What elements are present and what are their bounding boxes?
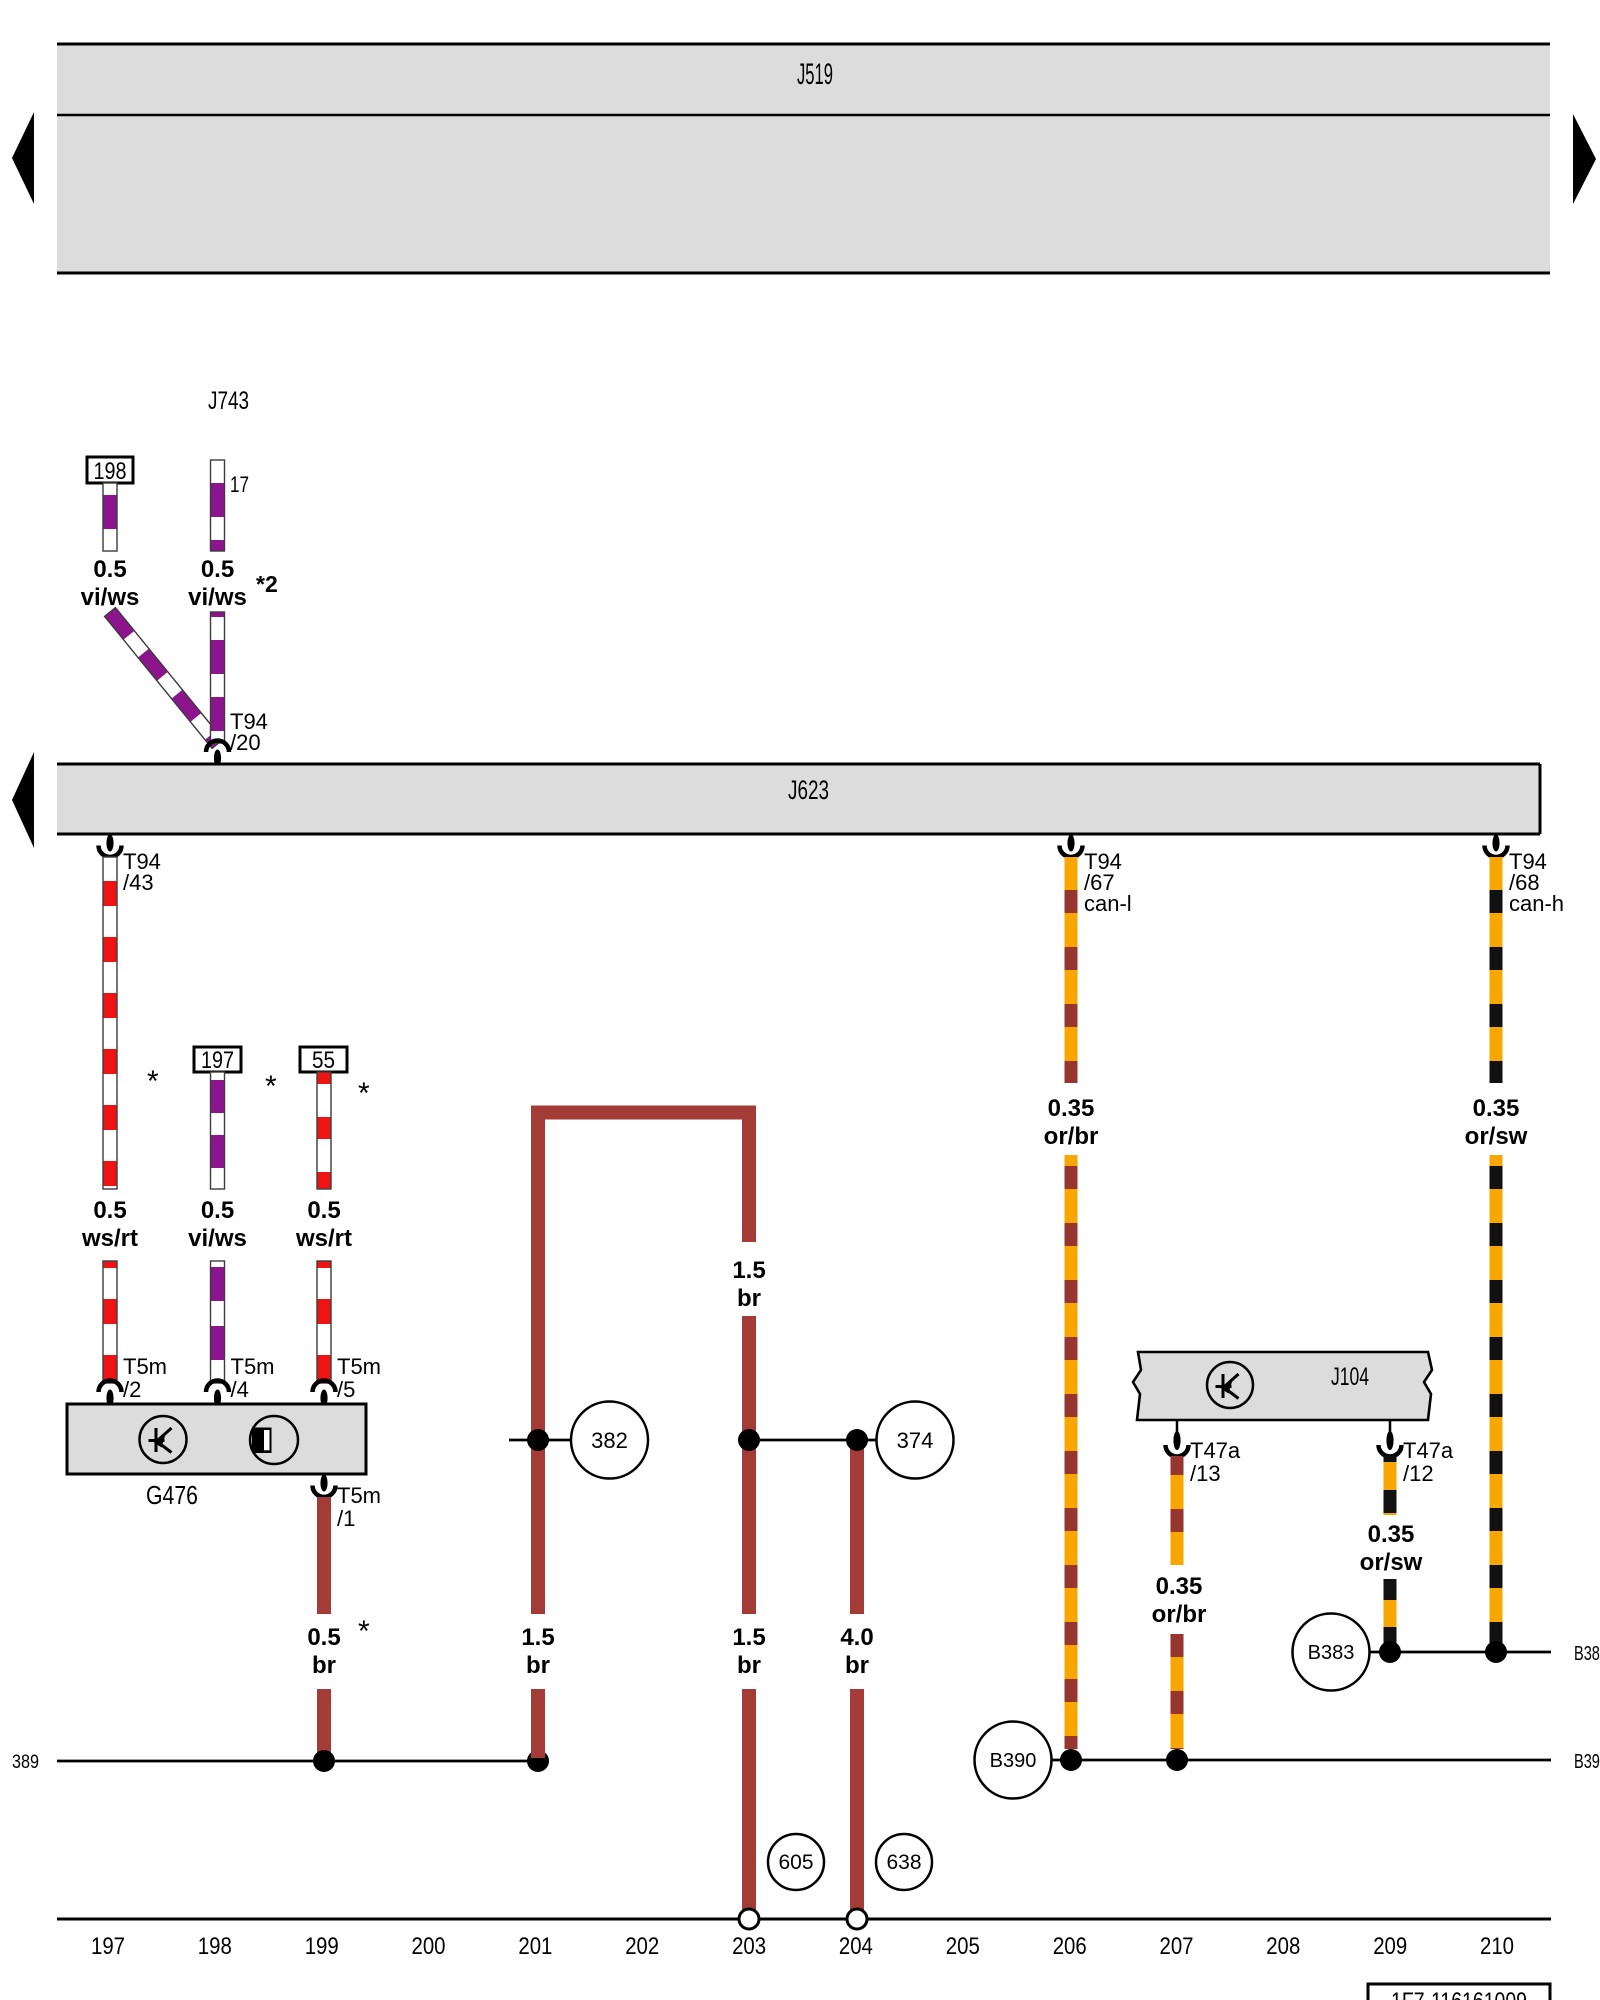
- connector T5m/2 on G476: [99, 1381, 122, 1407]
- svg-text:638: 638: [886, 1851, 921, 1874]
- svg-text:T47a: T47a: [1403, 1438, 1454, 1463]
- svg-text:55: 55: [312, 1047, 335, 1074]
- wire 0.35 or/sw CAN-high (lower segment): [1490, 1155, 1503, 1646]
- connection line junction col203 to circle 374: [749, 1439, 876, 1442]
- terminal 605 open circle: [739, 1909, 759, 1929]
- connector T94/68 on J623: [1485, 835, 1508, 858]
- wire 4.0 br col204 (lower segment): [850, 1689, 864, 1910]
- reference circle 382: [571, 1402, 648, 1479]
- junction on ground line 389 (col201): [527, 1750, 549, 1772]
- wire label 0.5 vi/ws (pin 17): [188, 556, 247, 611]
- node circle B390: [975, 1722, 1052, 1799]
- footnote marker * (0.5 br): [358, 1615, 370, 1648]
- svg-text:0.35: 0.35: [1156, 1573, 1203, 1600]
- connector T5m/5 on G476: [313, 1381, 336, 1407]
- svg-text:207: 207: [1160, 1933, 1194, 1960]
- svg-text:T47a: T47a: [1190, 1438, 1241, 1463]
- connector label T47a/12: [1403, 1438, 1454, 1486]
- svg-text:0.5: 0.5: [307, 1624, 340, 1651]
- svg-text:/2: /2: [123, 1377, 141, 1402]
- svg-text:17: 17: [230, 472, 249, 497]
- terminal designation box 197: [194, 1047, 241, 1074]
- svg-text:ws/rt: ws/rt: [295, 1225, 352, 1252]
- svg-text:199: 199: [305, 1933, 339, 1960]
- svg-text:0.5: 0.5: [307, 1197, 340, 1224]
- svg-text:0.35: 0.35: [1368, 1521, 1415, 1548]
- wire label 0.35 or/br (CAN-low): [1044, 1095, 1099, 1150]
- wire 1.5 br col203 (top segment): [742, 1106, 756, 1243]
- wire label 0.5 vi/ws (left): [81, 556, 140, 611]
- wire label 1.5 br (col203): [732, 1624, 765, 1679]
- wire 1.5 br col201 (lower segment): [531, 1689, 545, 1758]
- reference circle 605: [768, 1834, 824, 1890]
- sensor symbol inside G476: [140, 1416, 187, 1463]
- junction on ground line 389 (col199): [313, 1750, 335, 1772]
- wire 0.35 or/br col207 (upper segment): [1171, 1456, 1184, 1565]
- wire 0.5 ws/rt to T5m/2: [103, 1261, 117, 1383]
- svg-text:or/br: or/br: [1044, 1123, 1099, 1150]
- svg-text:1.5: 1.5: [732, 1257, 765, 1284]
- current track baseline: [57, 1918, 1551, 1921]
- connector label T94/68 can-h: [1509, 849, 1564, 916]
- svg-text:br: br: [312, 1652, 336, 1679]
- wire 0.5 ws/rt from T94/43: [103, 857, 117, 1189]
- wire 0.5 vi/ws down to T94/20: [211, 612, 225, 743]
- svg-text:198: 198: [198, 1933, 232, 1960]
- svg-text:/5: /5: [337, 1377, 355, 1402]
- wire 1.5 br col203 (bottom segment): [742, 1689, 756, 1910]
- svg-text:/1: /1: [337, 1506, 355, 1531]
- node line B390: [1051, 1759, 1551, 1762]
- pin number 17: [230, 472, 249, 497]
- svg-text:B390: B390: [1574, 1751, 1600, 1773]
- svg-text:vi/ws: vi/ws: [188, 1225, 247, 1252]
- wire label 4.0 br (col204): [840, 1624, 873, 1679]
- wire label 0.5 ws/rt (col197): [81, 1197, 138, 1252]
- current track numbers 197-210: [91, 1933, 1514, 1960]
- connector T94/43 on J623: [99, 835, 122, 858]
- junction col207 / B390: [1166, 1749, 1188, 1771]
- wire 1.5 br col201 (upper segment): [531, 1106, 545, 1615]
- svg-text:0.5: 0.5: [93, 1197, 126, 1224]
- svg-text:389: 389: [12, 1752, 39, 1773]
- svg-text:202: 202: [625, 1933, 659, 1960]
- svg-text:or/sw: or/sw: [1465, 1123, 1528, 1150]
- svg-text:T5m: T5m: [123, 1354, 167, 1379]
- connector T94/67 on J623: [1060, 835, 1083, 858]
- connector label T94/67 can-l: [1084, 849, 1132, 916]
- svg-text:0.5: 0.5: [93, 556, 126, 583]
- connection line to reference circle 382: [509, 1439, 571, 1442]
- reference circle 638: [876, 1834, 932, 1890]
- wire label 1.5 br (col203 upper): [732, 1257, 765, 1312]
- connector T5m/1 on G476: [313, 1475, 336, 1498]
- control unit J519: [57, 44, 1550, 273]
- svg-text:*: *: [358, 1615, 370, 1648]
- svg-text:*: *: [265, 1070, 277, 1103]
- connector label T5m/1: [337, 1483, 381, 1531]
- svg-text:/43: /43: [123, 870, 154, 895]
- junction col203 wire / 374: [738, 1429, 760, 1451]
- footnote marker * (left): [147, 1065, 159, 1098]
- wire 0.5 vi/ws to T5m/4: [211, 1261, 225, 1383]
- switch symbol inside G476: [250, 1416, 298, 1464]
- junction col209 / B383: [1379, 1641, 1401, 1663]
- svg-text:605: 605: [778, 1851, 813, 1874]
- svg-text:/4: /4: [231, 1377, 249, 1402]
- connector label T5m/4: [231, 1354, 275, 1402]
- svg-text:0.5: 0.5: [201, 556, 234, 583]
- continuation arrow left (J623): [12, 752, 34, 848]
- svg-text:/12: /12: [1403, 1461, 1434, 1486]
- footnote marker * (right): [358, 1077, 370, 1110]
- junction col204 wire / 374: [846, 1429, 868, 1451]
- node label B383 (right edge): [1574, 1643, 1600, 1665]
- svg-text:210: 210: [1480, 1933, 1514, 1960]
- svg-text:br: br: [845, 1652, 869, 1679]
- svg-text:T5m: T5m: [337, 1483, 381, 1508]
- wire 0.35 or/sw CAN-high (upper segment): [1490, 857, 1503, 1083]
- wire label 0.35 or/sw (col209): [1360, 1521, 1423, 1576]
- svg-text:0.35: 0.35: [1473, 1095, 1520, 1122]
- footnote marker * (middle): [265, 1070, 277, 1103]
- wire label 0.5 vi/ws (col198): [188, 1197, 247, 1252]
- svg-text:1.5: 1.5: [732, 1624, 765, 1651]
- svg-text:/20: /20: [230, 730, 261, 755]
- svg-text:198: 198: [94, 458, 127, 485]
- wire 0.5 vi/ws from terminal box 197: [211, 1072, 225, 1189]
- terminal designation box 55: [300, 1047, 347, 1074]
- component label J743 (steering column electronics): [208, 387, 249, 415]
- svg-text:209: 209: [1373, 1933, 1407, 1960]
- terminal designation box 198: [87, 457, 133, 485]
- control unit J623 (engine control unit): [57, 764, 1540, 834]
- svg-text:208: 208: [1266, 1933, 1300, 1960]
- connector label T94/20: [230, 709, 268, 755]
- connector T5m/4 on G476: [206, 1381, 229, 1407]
- wire 4.0 br col204 (upper segment): [850, 1435, 864, 1614]
- wire 0.35 or/sw col209 (lower segment): [1384, 1579, 1397, 1649]
- wire 0.5 ws/rt from terminal box 55: [317, 1072, 331, 1189]
- svg-text:can-l: can-l: [1084, 891, 1132, 916]
- connector label T5m/5: [337, 1354, 381, 1402]
- svg-text:201: 201: [518, 1933, 552, 1960]
- wire label 0.35 or/br (col207): [1152, 1573, 1207, 1628]
- component label G476: [146, 1480, 198, 1510]
- wire 0.5 br (lower segment): [317, 1689, 331, 1758]
- connector T47a/12 on J104: [1379, 1420, 1402, 1457]
- connector label T47a/13: [1190, 1438, 1241, 1486]
- svg-text:vi/ws: vi/ws: [81, 584, 140, 611]
- wire 0.5 vi/ws from terminal box 198: [103, 483, 117, 551]
- svg-text:br: br: [737, 1285, 761, 1312]
- svg-text:G476: G476: [146, 1480, 198, 1510]
- wire 0.5 ws/rt to T5m/5: [317, 1261, 331, 1383]
- svg-text:B383: B383: [1308, 1642, 1355, 1664]
- svg-text:J519: J519: [797, 58, 833, 91]
- svg-text:can-h: can-h: [1509, 891, 1564, 916]
- svg-text:205: 205: [946, 1933, 980, 1960]
- svg-text:*: *: [358, 1077, 370, 1110]
- wire label 0.5 br: [307, 1624, 340, 1679]
- svg-text:J104: J104: [1331, 1363, 1369, 1391]
- svg-text:1F7-116161009: 1F7-116161009: [1391, 1988, 1527, 2000]
- wire 0.5 br from T5m/1 (upper segment): [317, 1497, 331, 1614]
- svg-text:T5m: T5m: [337, 1354, 381, 1379]
- svg-text:/13: /13: [1190, 1461, 1221, 1486]
- wire 1.5 br horizontal bridge: [531, 1106, 756, 1120]
- svg-text:ws/rt: ws/rt: [81, 1225, 138, 1252]
- svg-text:0.35: 0.35: [1048, 1095, 1095, 1122]
- svg-text:206: 206: [1053, 1933, 1087, 1960]
- svg-text:0.5: 0.5: [201, 1197, 234, 1224]
- svg-text:200: 200: [412, 1933, 446, 1960]
- svg-text:or/sw: or/sw: [1360, 1549, 1423, 1576]
- wire label 1.5 br (col201): [521, 1624, 554, 1679]
- junction col201 wire / 382: [527, 1429, 549, 1451]
- sensor symbol inside J104: [1207, 1362, 1253, 1408]
- wire 1.5 br col203 (middle segment): [742, 1316, 756, 1614]
- wire 0.35 or/br CAN-low (lower segment): [1065, 1155, 1078, 1749]
- svg-text:vi/ws: vi/ws: [188, 584, 247, 611]
- wire label 0.35 or/sw (CAN-high): [1465, 1095, 1528, 1150]
- wire 0.35 or/br CAN-low (upper segment): [1065, 857, 1078, 1083]
- svg-text:B383: B383: [1574, 1643, 1600, 1665]
- sensor G476 (clutch position sender) box: [67, 1404, 366, 1474]
- connector label T5m/2: [123, 1354, 167, 1402]
- svg-text:J743: J743: [208, 387, 249, 415]
- footnote marker *2: [256, 571, 278, 597]
- svg-text:374: 374: [897, 1428, 934, 1453]
- node circle B383: [1293, 1614, 1370, 1691]
- wire 0.35 or/br col207 (lower segment): [1171, 1634, 1184, 1749]
- svg-text:4.0: 4.0: [840, 1624, 873, 1651]
- svg-text:*2: *2: [256, 571, 278, 597]
- svg-text:T5m: T5m: [231, 1354, 275, 1379]
- svg-text:1.5: 1.5: [521, 1624, 554, 1651]
- reference circle 374: [877, 1402, 954, 1479]
- control unit J104 (ABS) box: [1133, 1352, 1432, 1420]
- node line B383: [1369, 1651, 1551, 1654]
- junction col210 / B383: [1485, 1641, 1507, 1663]
- svg-text:*: *: [147, 1065, 159, 1098]
- wire 0.35 or/sw col209 (upper segment): [1384, 1456, 1397, 1515]
- connector T94/20 on J623: [206, 741, 229, 767]
- svg-text:br: br: [737, 1652, 761, 1679]
- connector label T94/43: [123, 849, 161, 895]
- svg-text:or/br: or/br: [1152, 1601, 1207, 1628]
- svg-text:204: 204: [839, 1933, 873, 1960]
- continuation arrow left (J519): [12, 112, 34, 204]
- drawing number box 1F7-116161009: [1368, 1984, 1550, 2000]
- svg-text:197: 197: [201, 1047, 234, 1074]
- svg-text:197: 197: [91, 1933, 125, 1960]
- svg-text:B390: B390: [990, 1750, 1037, 1772]
- node label B390 (right edge): [1574, 1751, 1600, 1773]
- wire label 0.5 ws/rt (col199): [295, 1197, 352, 1252]
- continuation arrow right (J519): [1573, 114, 1596, 204]
- wire 0.5 vi/ws from J743 pin 17: [211, 460, 225, 551]
- svg-text:203: 203: [732, 1933, 766, 1960]
- svg-text:382: 382: [591, 1428, 628, 1453]
- terminal 638 open circle: [847, 1909, 867, 1929]
- ground line 389: [57, 1760, 538, 1763]
- ground label 389: [12, 1752, 39, 1773]
- diagonal wire 0.5 vi/ws joining into T94/20: [105, 608, 223, 749]
- junction col206 / B390: [1060, 1749, 1082, 1771]
- connector T47a/13 on J104: [1166, 1420, 1189, 1457]
- svg-text:J623: J623: [788, 775, 829, 805]
- svg-text:br: br: [526, 1652, 550, 1679]
